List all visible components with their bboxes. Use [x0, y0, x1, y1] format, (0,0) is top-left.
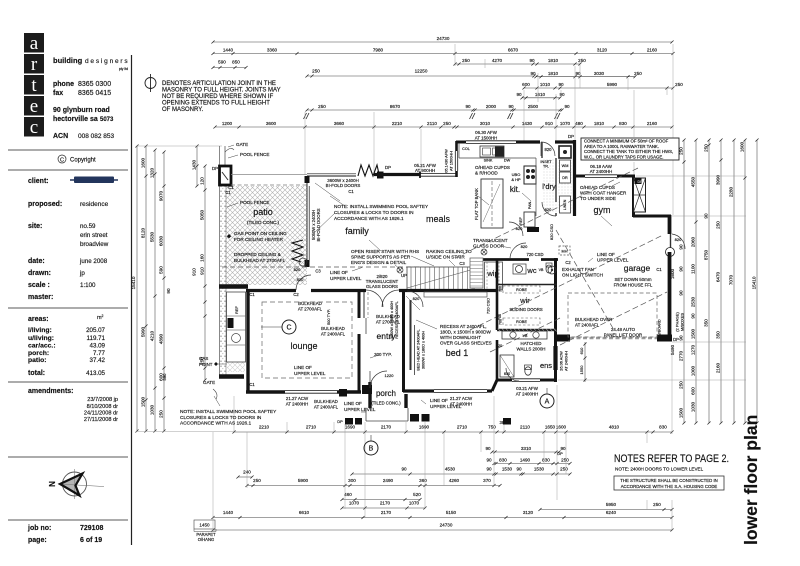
dim pool fence 1430 — [192, 144, 199, 187]
svg-text:90: 90 — [401, 467, 407, 472]
svg-text:3600: 3600 — [266, 121, 277, 126]
parapet overhang label — [194, 520, 215, 529]
svg-text:1690: 1690 — [419, 425, 430, 430]
svg-text:90 glynburn road: 90 glynburn road — [53, 107, 110, 114]
svg-text:1100: 1100 — [691, 264, 696, 274]
svg-text:GATE: GATE — [203, 380, 215, 385]
svg-text:830: 830 — [659, 425, 667, 430]
svg-text:1530: 1530 — [534, 467, 545, 472]
svg-text:date:: date: — [28, 258, 45, 265]
double tick marks — [304, 113, 307, 119]
svg-text:U/SIDE ON STAIR: U/SIDE ON STAIR — [426, 255, 465, 260]
svg-text:C2: C2 — [293, 292, 299, 297]
dim chain right 1 — [679, 138, 686, 424]
svg-text:BULKHEAD: BULKHEAD — [314, 399, 338, 404]
ens door — [506, 368, 519, 381]
lounge bottom wall with window — [246, 390, 285, 393]
dim chain right 4 — [716, 138, 723, 424]
svg-text:8670: 8670 — [390, 104, 401, 109]
svg-text:ROBE: ROBE — [516, 320, 527, 324]
svg-text:1070: 1070 — [409, 501, 420, 506]
svg-text:12250: 12250 — [415, 69, 428, 74]
svg-text:250: 250 — [159, 410, 164, 418]
svg-text:kit.: kit. — [510, 185, 520, 194]
garage door jamb dims — [584, 342, 586, 382]
artec logo — [24, 33, 44, 53]
svg-text:MASONRY TO FULL HEIGHT. JOINTS: MASONRY TO FULL HEIGHT. JOINTS MAY — [162, 88, 281, 94]
svg-text:2160: 2160 — [647, 48, 658, 53]
svg-text:GLASS DOOR: GLASS DOOR — [473, 244, 505, 249]
meals wall nib — [527, 227, 539, 232]
svg-text:3000W x 180D x 400H: 3000W x 180D x 400H — [422, 331, 426, 369]
svg-text:820: 820 — [516, 226, 523, 231]
svg-text:CLOSURES & LOCKS TO DOORS IN: CLOSURES & LOCKS TO DOORS IN — [334, 210, 414, 215]
svg-text:NOTE: INSTALL SWIMMING POOL SA: NOTE: INSTALL SWIMMING POOL SAFTEY — [180, 409, 277, 415]
svg-text:8365 0300: 8365 0300 — [78, 81, 111, 88]
svg-text:t: t — [31, 75, 37, 96]
entry niche lines — [365, 318, 367, 334]
misc leader lines — [411, 256, 434, 266]
svg-text:POINT: POINT — [199, 362, 213, 367]
extension lines right — [672, 215, 746, 217]
svg-text:250: 250 — [704, 144, 709, 152]
svg-text:250: 250 — [561, 458, 569, 463]
svg-text:WITH DOWNLIGHT: WITH DOWNLIGHT — [440, 335, 481, 340]
svg-text:600: 600 — [522, 82, 530, 87]
svg-text:820 CSD: 820 CSD — [549, 224, 554, 240]
svg-text:15410: 15410 — [752, 276, 757, 289]
svg-text:008 082 853: 008 082 853 — [78, 133, 115, 140]
svg-text:r: r — [31, 54, 38, 75]
svg-text:2170: 2170 — [380, 501, 391, 506]
dim chain right 3030 — [530, 71, 642, 78]
svg-text:90: 90 — [679, 244, 684, 250]
svg-text:3310: 3310 — [521, 446, 532, 451]
svg-text:24730: 24730 — [437, 36, 450, 41]
svg-text:2490: 2490 — [383, 478, 394, 483]
svg-text:6670: 6670 — [508, 48, 519, 53]
lounge right wall — [358, 290, 361, 318]
svg-text:wir: wir — [519, 296, 530, 305]
svg-text:LINE OF: LINE OF — [430, 398, 448, 403]
svg-text:360: 360 — [419, 478, 427, 483]
section marker A — [540, 388, 554, 408]
stair — [397, 267, 474, 290]
svg-text:pty ltd: pty ltd — [119, 67, 128, 71]
svg-text:90: 90 — [530, 71, 536, 76]
svg-text:4210: 4210 — [150, 330, 155, 341]
svg-text:5990: 5990 — [607, 82, 618, 87]
manhole — [559, 246, 570, 255]
svg-text:820: 820 — [521, 244, 528, 249]
garage cross diagonal — [556, 230, 614, 330]
stair return flight — [470, 258, 483, 288]
svg-text:c: c — [30, 117, 38, 138]
garage top wall — [633, 215, 671, 218]
svg-text:90: 90 — [516, 467, 522, 472]
dim chain right 6 — [740, 138, 747, 424]
svg-text:client:: client: — [28, 178, 49, 185]
svg-text:1270: 1270 — [691, 344, 696, 355]
svg-text:250: 250 — [312, 69, 320, 74]
svg-text:SET DOWN 50mm: SET DOWN 50mm — [615, 277, 652, 282]
svg-text:1070: 1070 — [349, 501, 360, 506]
svg-text:2710: 2710 — [457, 425, 468, 430]
svg-text:5950: 5950 — [606, 502, 617, 507]
articulation circle on garage wall — [666, 248, 675, 257]
svg-text:250: 250 — [679, 381, 684, 389]
svg-text:90: 90 — [485, 446, 491, 451]
svg-text:90: 90 — [529, 58, 535, 63]
dim chain overall height left — [131, 144, 139, 432]
svg-text:1530: 1530 — [502, 467, 513, 472]
svg-text:patio: patio — [253, 207, 273, 217]
dp squares below porch — [345, 418, 353, 425]
svg-text:9070: 9070 — [159, 190, 164, 201]
svg-text:1440: 1440 — [223, 48, 234, 53]
svg-text:LINE OF: LINE OF — [330, 270, 348, 275]
linen — [560, 196, 571, 213]
svg-text:GLASS DOORS: GLASS DOORS — [366, 284, 398, 289]
dim chain bottom setout — [232, 425, 673, 434]
svg-text:DP: DP — [212, 166, 218, 171]
svg-text:june 2008: june 2008 — [79, 258, 108, 265]
rainwater tank note box — [581, 138, 679, 160]
svg-text:3000W x 180D x 400H: 3000W x 180D x 400H — [390, 301, 394, 339]
svg-text:5150: 5150 — [446, 510, 457, 515]
ldry door bottom 820 — [542, 202, 556, 216]
svg-text:2770: 2770 — [679, 350, 684, 361]
svg-text:1030: 1030 — [150, 404, 155, 415]
svg-text:1490: 1490 — [520, 458, 531, 463]
svg-text:UPPER LEVEL: UPPER LEVEL — [344, 407, 376, 412]
kit ref space — [524, 212, 535, 227]
svg-text:205.07: 205.07 — [86, 327, 105, 334]
title block divider line — [131, 55, 133, 545]
svg-text:2530: 2530 — [691, 296, 696, 307]
patio top edge — [231, 174, 307, 176]
svg-text:1450: 1450 — [199, 523, 210, 528]
svg-text:8365 0415: 8365 0415 — [78, 90, 111, 97]
svg-text:3120: 3120 — [597, 48, 608, 53]
svg-text:DP: DP — [337, 419, 343, 424]
svg-text:1430: 1430 — [192, 159, 197, 170]
svg-text:90: 90 — [465, 104, 471, 109]
svg-text:HATCHED: HATCHED — [521, 341, 542, 346]
svg-text:DP: DP — [557, 451, 563, 456]
ens bottom wall with window 03.21 — [497, 379, 512, 382]
svg-text:4890: 4890 — [159, 333, 164, 344]
svg-text:43.09: 43.09 — [90, 343, 106, 350]
svg-text:C: C — [286, 325, 291, 332]
svg-text:03.21 AFW: 03.21 AFW — [516, 386, 539, 391]
svg-text:THE STRUCTURE SHALL BE CONSTRU: THE STRUCTURE SHALL BE CONSTRUCTED IN — [620, 478, 718, 483]
svg-text:610: 610 — [579, 347, 584, 354]
svg-text:7070: 7070 — [729, 274, 734, 285]
svg-text:2110: 2110 — [427, 121, 437, 126]
hob unit — [524, 166, 536, 184]
svg-text:729108: 729108 — [80, 525, 103, 532]
structure code box — [614, 476, 724, 490]
svg-text:OPENING EXTENDS TO FULL HEIGHT: OPENING EXTENDS TO FULL HEIGHT — [162, 101, 270, 107]
svg-text:1600: 1600 — [141, 157, 146, 168]
svg-text:1610: 1610 — [535, 92, 546, 97]
svg-text:1690: 1690 — [345, 425, 356, 430]
svg-text:5490: 5490 — [670, 344, 675, 355]
svg-text:3010: 3010 — [480, 121, 491, 126]
svg-text:amendments:: amendments: — [28, 388, 74, 395]
svg-text:21.27 ACW: 21.27 ACW — [450, 396, 473, 401]
svg-text:ACCORDANCE WITH AS 1926.1: ACCORDANCE WITH AS 1926.1 — [334, 216, 404, 221]
svg-text:UP: UP — [401, 273, 407, 278]
svg-text:OPEN RISER STAIR WITH RHS: OPEN RISER STAIR WITH RHS — [351, 249, 419, 254]
svg-text:C2: C2 — [565, 260, 571, 265]
svg-text:1:100: 1:100 — [80, 282, 96, 289]
svg-text:NOTE: INSTALL SWIMMING POOL SA: NOTE: INSTALL SWIMMING POOL SAFTEY — [334, 204, 429, 209]
svg-text:2110: 2110 — [520, 425, 530, 430]
svg-text:06.30 AFW: 06.30 AFW — [475, 130, 498, 135]
garage light circle — [548, 266, 556, 274]
svg-text:90: 90 — [564, 104, 570, 109]
svg-text:2: 2 — [102, 314, 104, 318]
svg-text:garage: garage — [624, 263, 651, 273]
svg-text:POOL FENCE: POOL FENCE — [240, 200, 269, 205]
svg-text:250: 250 — [253, 478, 261, 483]
dim chain 24730 bottom — [211, 523, 673, 532]
svg-text:AT 2400AFL: AT 2400AFL — [321, 332, 346, 337]
svg-text:720 CSD: 720 CSD — [527, 252, 544, 257]
dim chain overall width top — [211, 36, 673, 43]
alfresco kitchenette — [227, 292, 246, 362]
svg-text:site:: site: — [28, 223, 42, 230]
svg-text:5990: 5990 — [141, 326, 146, 337]
articulation spring patio doors — [292, 240, 303, 262]
wm dr stack — [560, 160, 571, 171]
svg-text:AT 1500HH: AT 1500HH — [475, 136, 498, 141]
svg-text:90: 90 — [558, 82, 564, 87]
svg-text:90: 90 — [166, 288, 171, 294]
svg-text:119.71: 119.71 — [87, 335, 106, 342]
svg-text:AT 1500HH: AT 1500HH — [449, 151, 454, 171]
svg-text:BULKHEAD OVER: BULKHEAD OVER — [575, 317, 612, 322]
svg-text:DENOTES ARTICULATION JOINT IN: DENOTES ARTICULATION JOINT IN THE — [162, 81, 276, 87]
kitchen step wall with window — [455, 141, 458, 151]
window 05.21 family — [420, 173, 456, 175]
svg-text:O/HEAD CUPDS: O/HEAD CUPDS — [580, 185, 615, 190]
svg-text:SPINE SUPPORTS AS PER: SPINE SUPPORTS AS PER — [351, 255, 411, 260]
svg-text:W/BOARD: W/BOARD — [658, 319, 662, 337]
garage bulkhead dashed — [568, 293, 657, 337]
lounge walls — [246, 290, 249, 393]
svg-text:drawn:: drawn: — [28, 270, 51, 277]
svg-text:6030: 6030 — [159, 235, 164, 246]
svg-text:590: 590 — [162, 373, 167, 381]
svg-text:meals: meals — [426, 214, 451, 224]
svg-text:1010: 1010 — [540, 82, 551, 87]
svg-text:6240: 6240 — [606, 510, 617, 515]
svg-text:830: 830 — [542, 458, 550, 463]
svg-text:PAN.: PAN. — [528, 201, 532, 210]
dim chain left fourth — [159, 150, 166, 432]
svg-text:POOL FENCE: POOL FENCE — [240, 152, 269, 157]
svg-text:CLOSURES & LOCKS TO DOORS IN: CLOSURES & LOCKS TO DOORS IN — [180, 415, 262, 421]
kitchen island flat top bank — [481, 179, 503, 228]
svg-text:porch: porch — [376, 389, 396, 398]
svg-text:2210: 2210 — [392, 121, 403, 126]
entry door swing — [370, 371, 387, 388]
svg-text:480: 480 — [575, 121, 583, 126]
svg-text:1500: 1500 — [691, 328, 696, 339]
svg-text:720: 720 — [496, 344, 502, 348]
svg-text:90: 90 — [516, 92, 522, 97]
svg-text:DP: DP — [638, 180, 644, 184]
svg-text:4550: 4550 — [691, 176, 696, 187]
svg-text:820: 820 — [297, 277, 304, 282]
svg-text:scale :: scale : — [28, 282, 50, 289]
svg-text:WM: WM — [562, 164, 569, 168]
svg-text:700: 700 — [499, 286, 503, 292]
svg-text:fax: fax — [53, 90, 63, 97]
svg-text:Copyright: Copyright — [70, 158, 96, 164]
svg-text:4260: 4260 — [449, 478, 460, 483]
svg-text:LINE OF: LINE OF — [294, 365, 312, 370]
svg-text:ENG'S DESIGN & DETAIL: ENG'S DESIGN & DETAIL — [351, 260, 407, 265]
dim chain 12250 — [305, 69, 535, 78]
svg-text:8750: 8750 — [704, 249, 709, 260]
svg-text:erin street: erin street — [80, 232, 108, 239]
svg-text:RECESS AT 2400AFL,: RECESS AT 2400AFL, — [440, 324, 487, 329]
alfresco south wall — [219, 284, 248, 289]
svg-text:B: B — [369, 446, 374, 453]
svg-text:VB: VB — [523, 334, 528, 338]
svg-text:GATE: GATE — [236, 142, 248, 147]
svg-text:250: 250 — [578, 58, 586, 63]
svg-text:90: 90 — [486, 467, 492, 472]
dim chain 8670 — [305, 104, 570, 111]
wip wc north wall — [471, 258, 529, 261]
svg-text:180D, x 1500H x 900DW: 180D, x 1500H x 900DW — [440, 330, 491, 335]
dim chain bottom overall — [211, 510, 673, 519]
svg-text:job no:: job no: — [27, 525, 51, 532]
svg-text:1500: 1500 — [141, 396, 146, 407]
svg-text:AT 2400AFL: AT 2400AFL — [575, 323, 600, 328]
bed1 robe recess — [424, 292, 487, 297]
north arrow — [48, 469, 104, 499]
svg-text:O/HEAD CUPDS: O/HEAD CUPDS — [475, 165, 510, 170]
svg-text:250: 250 — [560, 467, 568, 472]
svg-text:820: 820 — [675, 237, 682, 242]
svg-text:2710: 2710 — [306, 425, 317, 430]
gym top wall window 06.18 — [574, 175, 585, 178]
ldry right wall — [573, 140, 576, 216]
svg-text:broadview: broadview — [80, 241, 109, 248]
svg-text:750: 750 — [488, 425, 496, 430]
dim chain 1490 — [486, 458, 571, 465]
svg-text:37.42: 37.42 — [90, 357, 106, 364]
svg-text:DR: DR — [562, 176, 568, 180]
svg-text:bed 1: bed 1 — [446, 348, 469, 358]
ldry top wall — [555, 140, 576, 143]
svg-text:90: 90 — [486, 458, 492, 463]
separator line — [8, 149, 128, 151]
extension lines bottom — [212, 432, 214, 531]
section marker B — [364, 435, 378, 455]
svg-text:DP: DP — [568, 134, 574, 139]
wc wir divider — [497, 284, 557, 286]
svg-text:2500: 2500 — [528, 104, 539, 109]
svg-text:250: 250 — [675, 82, 683, 87]
porch — [361, 371, 430, 422]
svg-text:UPPER LEVEL: UPPER LEVEL — [430, 404, 462, 409]
dim chain wall setout top — [213, 121, 673, 128]
svg-text:C1: C1 — [249, 292, 255, 297]
garage door posts — [556, 335, 570, 342]
svg-text:OVER GLASS SHELVES: OVER GLASS SHELVES — [440, 341, 492, 346]
svg-text:3030: 3030 — [594, 71, 605, 76]
svg-text:1200: 1200 — [222, 121, 233, 126]
svg-text:l/living:: l/living: — [28, 327, 52, 334]
svg-text:(TILED CONC.): (TILED CONC.) — [247, 220, 280, 225]
svg-text:ens: ens — [540, 361, 552, 370]
svg-text:BI-FOLD DOORS: BI-FOLD DOORS — [316, 208, 321, 241]
title block sidebar — [8, 33, 128, 544]
upper level diagonal dashed lines gym-garage — [455, 168, 638, 258]
svg-text:7.77: 7.77 — [93, 350, 106, 357]
svg-text:90: 90 — [679, 290, 684, 296]
svg-text:DP: DP — [385, 165, 391, 170]
articulation joint legend — [145, 74, 281, 113]
svg-text:2060: 2060 — [691, 236, 696, 247]
svg-text:830: 830 — [619, 121, 627, 126]
svg-text:C3: C3 — [315, 269, 321, 274]
dim chain 460-520 — [340, 492, 421, 501]
DP at family wall — [377, 172, 384, 179]
svg-text:ACCORDANCE WITH AS 1926.1: ACCORDANCE WITH AS 1926.1 — [180, 421, 252, 427]
svg-text:u/living:: u/living: — [28, 335, 54, 342]
svg-text:850: 850 — [232, 60, 240, 65]
svg-text:PANEL LIFT DOOR: PANEL LIFT DOOR — [604, 333, 642, 338]
svg-text:820: 820 — [545, 147, 553, 152]
svg-text:residence: residence — [80, 201, 109, 208]
svg-text:N: N — [48, 481, 57, 487]
dim chain right 2 — [691, 138, 698, 424]
svg-text:1650: 1650 — [545, 425, 556, 430]
svg-text:FLAT TOP BANK: FLAT TOP BANK — [474, 188, 479, 220]
svg-text:1810: 1810 — [548, 71, 559, 76]
dim chain right 5 — [729, 138, 736, 424]
DP square lounge — [339, 389, 347, 397]
svg-text:250: 250 — [462, 58, 470, 63]
ens shower — [500, 355, 514, 377]
svg-text:AT 2400HH: AT 2400HH — [590, 169, 613, 174]
svg-text:proposed:: proposed: — [28, 201, 62, 208]
svg-text:porch:: porch: — [28, 350, 49, 357]
patio bifold east doors — [306, 176, 308, 267]
svg-text:370: 370 — [483, 478, 491, 483]
svg-text:UPPER LEVEL: UPPER LEVEL — [330, 276, 362, 281]
svg-text:590: 590 — [218, 60, 226, 65]
svg-text:5530: 5530 — [150, 231, 155, 242]
dim chain 590-850 — [211, 60, 247, 70]
2/820 translucent doors family-entry — [366, 290, 383, 307]
svg-text:910: 910 — [192, 268, 197, 276]
svg-text:& HP: & HP — [511, 177, 521, 182]
dim chain left third — [150, 148, 157, 432]
dim chain right 3 — [704, 138, 711, 424]
extension lines top — [304, 112, 306, 175]
svg-text:SINK: SINK — [484, 159, 493, 163]
svg-text:3660: 3660 — [334, 121, 345, 126]
